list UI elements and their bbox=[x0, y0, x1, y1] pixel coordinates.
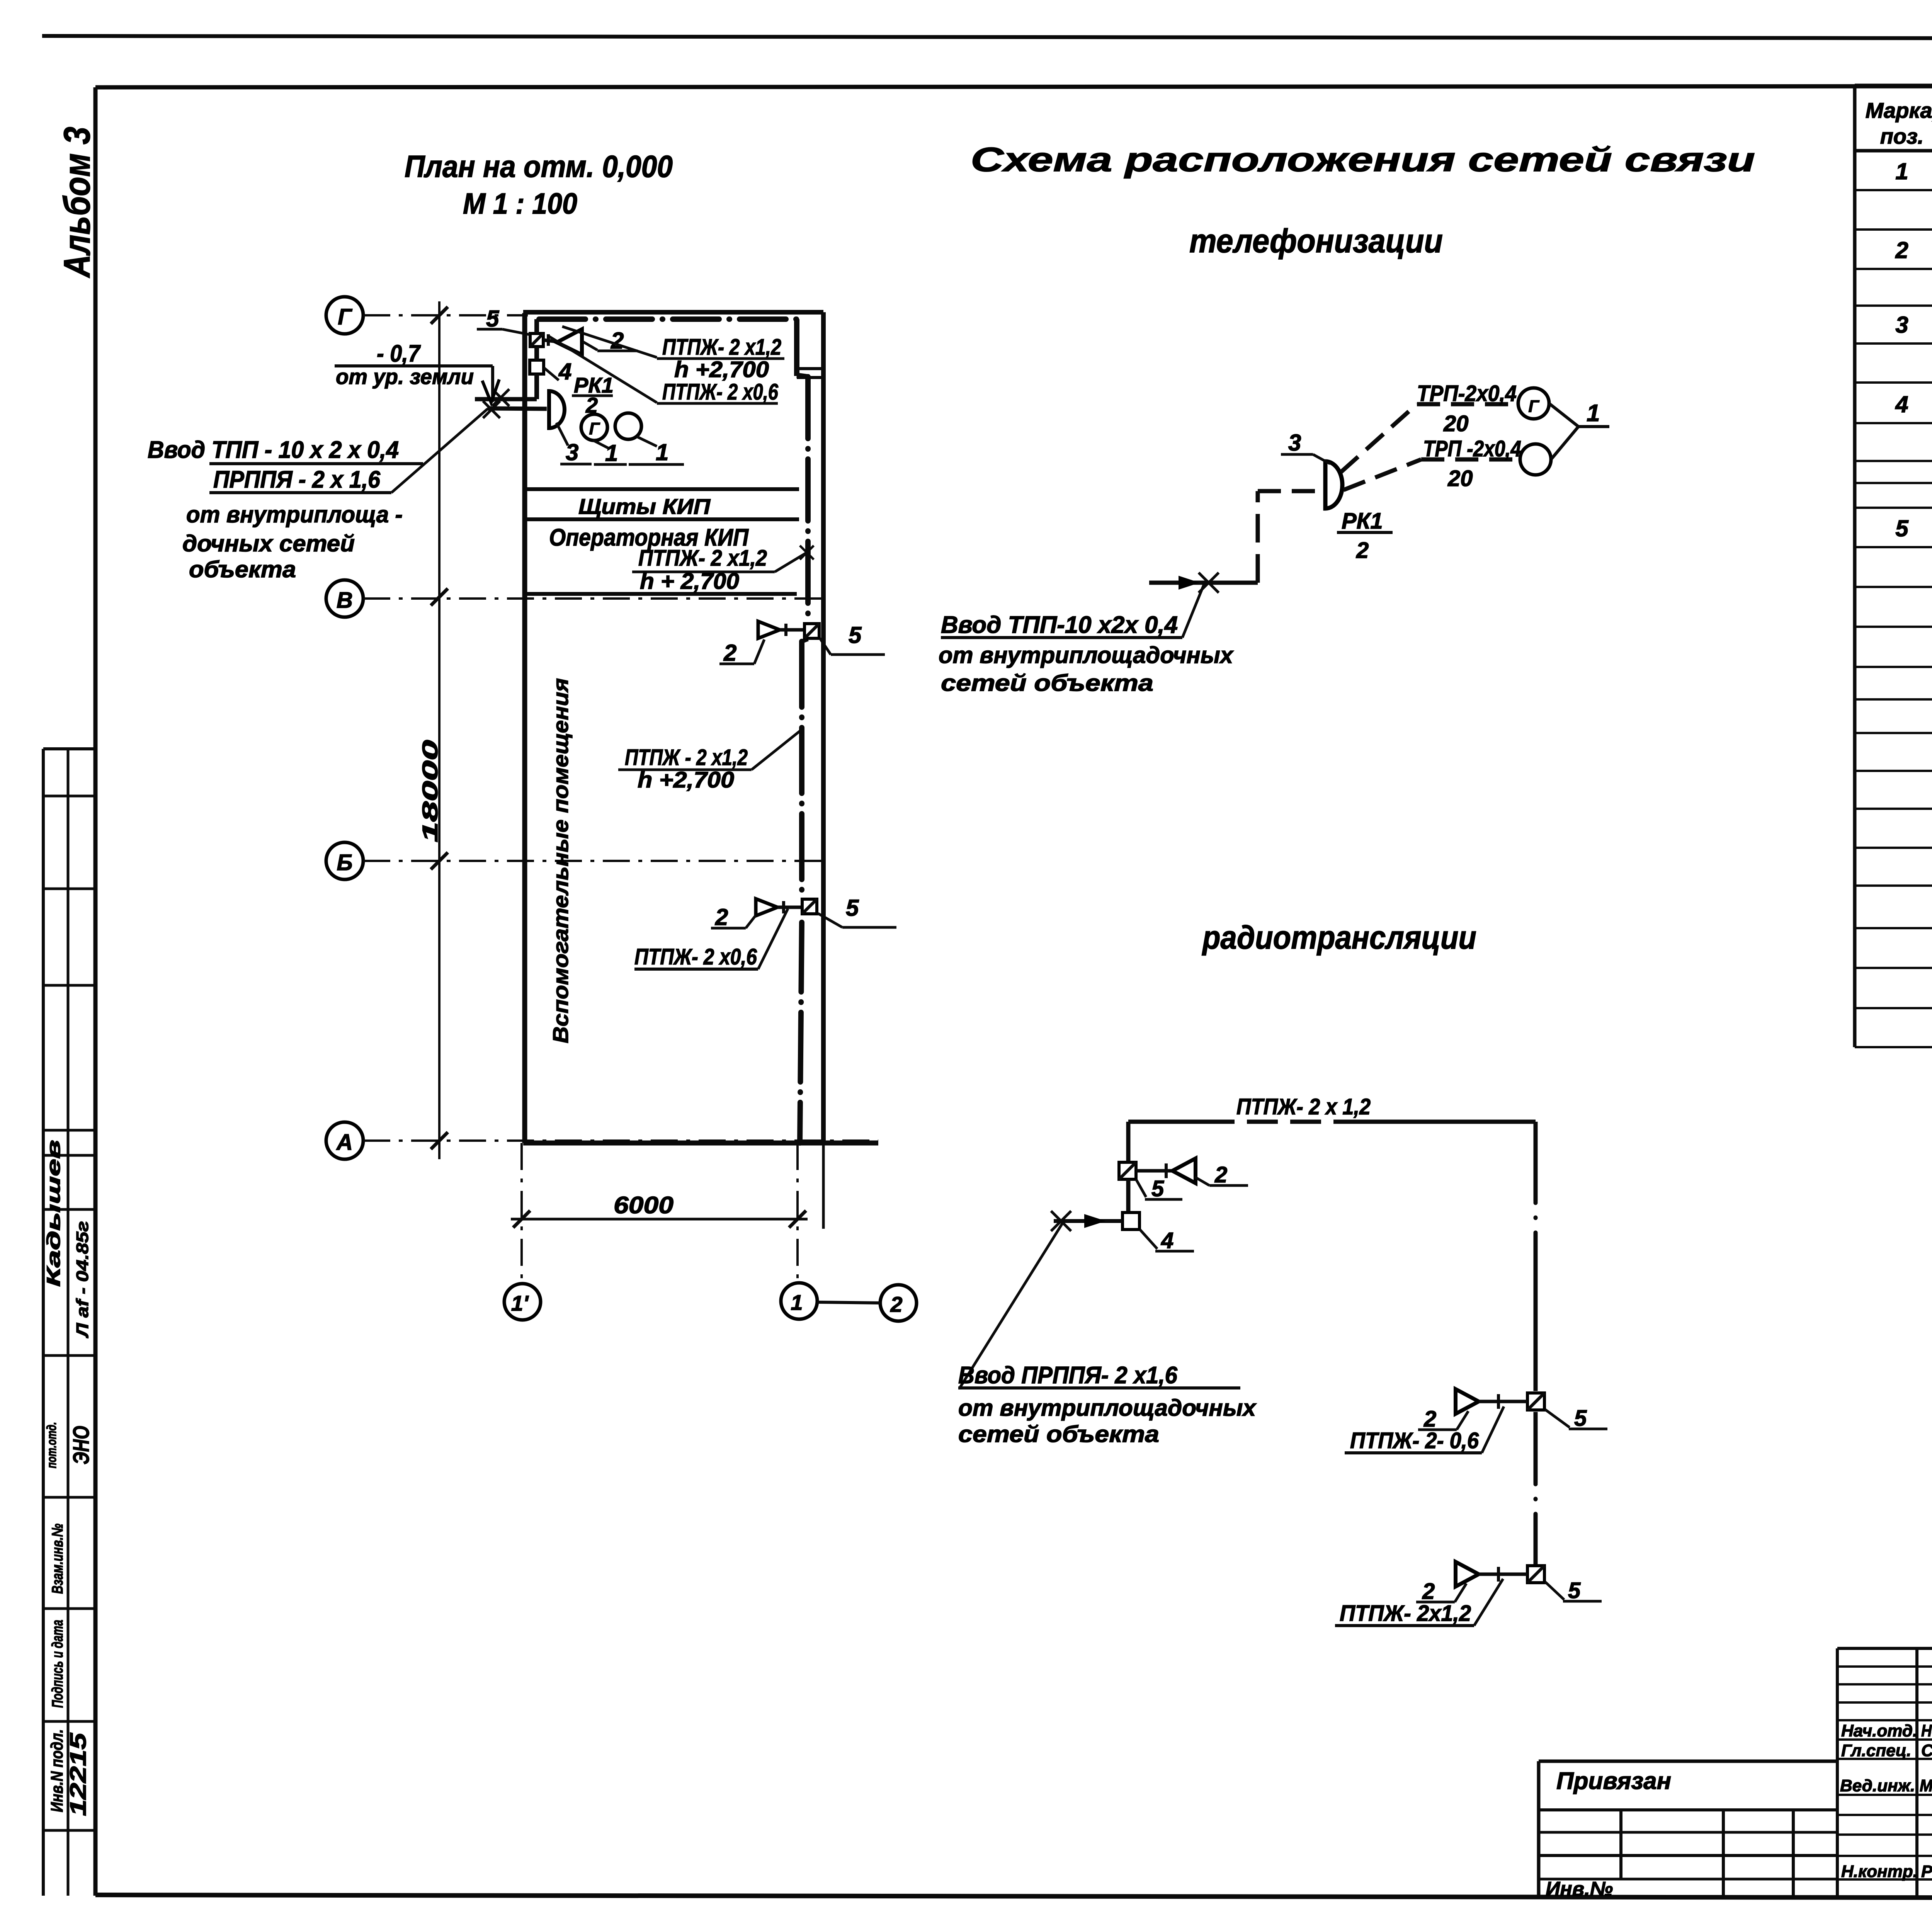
axis Б bbox=[326, 842, 823, 879]
left stamp strip grid bbox=[43, 749, 95, 1896]
entry stubs with crosses bbox=[475, 389, 547, 418]
radio entry arrow bbox=[1051, 1211, 1122, 1231]
svg-text:от внутриплощадочных: от внутриплощадочных bbox=[958, 1395, 1257, 1421]
axis Г bbox=[326, 297, 528, 334]
svg-text:сетей объекта: сетей объекта bbox=[958, 1421, 1159, 1447]
spec table rows text bbox=[1895, 158, 1932, 1041]
wire label mid operator room bbox=[632, 546, 814, 594]
svg-text:РК1: РК1 bbox=[1342, 509, 1383, 534]
svg-text:2: 2 bbox=[1214, 1162, 1227, 1187]
svg-text:Ввод ПРППЯ- 2 х1,6: Ввод ПРППЯ- 2 х1,6 bbox=[958, 1362, 1177, 1389]
svg-text:4: 4 bbox=[558, 359, 571, 384]
svg-text:4: 4 bbox=[1895, 391, 1908, 417]
loudspeaker item2 top-left bbox=[543, 329, 582, 355]
svg-text:18000: 18000 bbox=[418, 740, 442, 842]
svg-text:В: В bbox=[337, 588, 353, 613]
radio labels mid bbox=[1345, 1406, 1607, 1453]
vertical label Album 3 bbox=[56, 127, 98, 278]
bottom scan edge bbox=[37, 1899, 1932, 1932]
radio speaker bottom bbox=[1456, 1562, 1527, 1587]
svg-text:от внутриплощадочных: от внутриплощадочных bbox=[939, 642, 1234, 668]
svg-text:5: 5 bbox=[1574, 1406, 1587, 1431]
svg-text:ТРП-2х0,4: ТРП-2х0,4 bbox=[1417, 381, 1517, 406]
svg-text:Нач.отд.: Нач.отд. bbox=[1841, 1721, 1917, 1740]
svg-text:Инв.N подл.: Инв.N подл. bbox=[48, 1729, 66, 1812]
svg-text:20: 20 bbox=[1447, 466, 1473, 491]
svg-text:2: 2 bbox=[1356, 538, 1369, 563]
svg-text:2: 2 bbox=[1895, 237, 1908, 263]
tel lower branch TRP bbox=[1344, 436, 1551, 491]
radio right riser bbox=[1534, 1122, 1538, 1564]
telephone distribution box RK1 item3 bbox=[537, 374, 565, 428]
svg-text:1: 1 bbox=[1587, 400, 1600, 427]
wire label lower bbox=[618, 728, 804, 793]
svg-text:Щиты КИП: Щиты КИП bbox=[578, 494, 711, 519]
svg-text:ЭНО: ЭНО bbox=[69, 1426, 94, 1464]
radio box item5 left bbox=[1119, 1162, 1136, 1179]
radio labels bottom bbox=[1335, 1578, 1602, 1626]
svg-text:ПТПЖ- 2 х0,6: ПТПЖ- 2 х0,6 bbox=[662, 379, 779, 405]
radio box item4 bbox=[1122, 1213, 1139, 1230]
right wall group B speaker + box item5 bbox=[711, 895, 896, 930]
spec table grid bbox=[1855, 85, 1932, 1047]
svg-text:объекта: объекта bbox=[189, 556, 296, 582]
svg-text:Ввод ТПП-10 х2х 0,4: Ввод ТПП-10 х2х 0,4 bbox=[941, 612, 1178, 638]
svg-text:12215: 12215 bbox=[66, 1733, 91, 1816]
svg-text:h +2,700: h +2,700 bbox=[674, 357, 769, 382]
svg-text:ПТПЖ- 2х1,2: ПТПЖ- 2х1,2 bbox=[1340, 1601, 1471, 1626]
junction box item4 bbox=[530, 347, 544, 374]
label RK1/2 bbox=[572, 373, 614, 417]
tel label 1 fan bbox=[1549, 400, 1609, 459]
svg-text:h +2,700: h +2,700 bbox=[638, 767, 734, 793]
svg-text:М 1 : 100: М 1 : 100 bbox=[463, 187, 577, 220]
svg-text:h + 2,700: h + 2,700 bbox=[640, 569, 739, 594]
wire label PTPZh-2x0,6 lower bbox=[634, 909, 788, 969]
axis В bbox=[326, 580, 823, 617]
axis А bbox=[326, 1122, 878, 1159]
tel label 3 bbox=[1281, 430, 1330, 464]
svg-text:Привязан: Привязан bbox=[1556, 1768, 1671, 1794]
privyazan block bbox=[1539, 1761, 1837, 1900]
svg-text:сетей объекта: сетей объекта bbox=[941, 670, 1153, 696]
svg-text:Схема расположения сетей связи: Схема расположения сетей связи bbox=[971, 140, 1755, 179]
tel entry note bbox=[939, 584, 1234, 696]
svg-text:ПТПЖ- 2 х1,2: ПТПЖ- 2 х1,2 bbox=[662, 335, 781, 360]
radio entry note bbox=[958, 1222, 1257, 1447]
tel RK1/2 label bbox=[1337, 509, 1393, 563]
room labels bbox=[548, 494, 749, 1043]
svg-text:1: 1 bbox=[1895, 158, 1908, 184]
svg-text:2: 2 bbox=[890, 1292, 902, 1316]
svg-text:Инв.№: Инв.№ bbox=[1546, 1878, 1613, 1900]
svg-text:1: 1 bbox=[656, 439, 668, 465]
svg-text:Г: Г bbox=[338, 304, 352, 330]
svg-text:2: 2 bbox=[723, 640, 736, 666]
tel upper branch TRP bbox=[1341, 381, 1549, 472]
svg-text:5: 5 bbox=[846, 895, 859, 921]
svg-text:Г: Г bbox=[1528, 397, 1539, 416]
svg-text:ПТПЖ - 2 х1,2: ПТПЖ - 2 х1,2 bbox=[625, 745, 748, 770]
room divider lines bbox=[527, 489, 799, 594]
label 2 top-left bbox=[583, 328, 638, 354]
svg-text:2: 2 bbox=[1422, 1579, 1435, 1604]
svg-text:Взам.инв.№: Взам.инв.№ bbox=[49, 1524, 66, 1594]
radio top wire bbox=[1128, 1094, 1536, 1122]
radio speaker mid bbox=[1456, 1389, 1527, 1414]
svg-text:Вспомогательные помещения: Вспомогательные помещения bbox=[548, 678, 573, 1043]
radio wire to box4 bbox=[1126, 1179, 1131, 1213]
wall notch top right bbox=[797, 369, 822, 378]
svg-text:5: 5 bbox=[486, 306, 500, 332]
svg-text:План на отм. 0,000: План на отм. 0,000 bbox=[405, 149, 673, 184]
entry cable note left bbox=[148, 409, 488, 582]
svg-text:Рыков: Рыков bbox=[1921, 1862, 1932, 1881]
right wall group V-B speaker + box item5 bbox=[719, 621, 885, 666]
radio labels 5 2 left bbox=[1136, 1162, 1248, 1201]
callout labels 5 4 top-left bbox=[477, 306, 571, 384]
radio left riser bbox=[1126, 1122, 1131, 1163]
building outline bbox=[523, 312, 878, 1143]
elevation mark -0,7 bbox=[335, 340, 499, 403]
svg-text:поз.: поз. bbox=[1880, 124, 1924, 148]
svg-text:Вед.инж.: Вед.инж. bbox=[1840, 1776, 1915, 1795]
svg-text:1': 1' bbox=[511, 1291, 529, 1315]
tel riser wire bbox=[1258, 491, 1323, 583]
top border line bbox=[42, 36, 1932, 39]
svg-text:Б: Б bbox=[337, 850, 352, 875]
svg-text:Г: Г bbox=[589, 419, 600, 438]
svg-text:ПТПЖ- 2 х 1,2: ПТПЖ- 2 х 1,2 bbox=[1236, 1094, 1371, 1119]
callouts 3 1 1 bbox=[556, 423, 684, 466]
svg-text:радиотрансляции: радиотрансляции bbox=[1202, 919, 1476, 956]
telephone circle G bbox=[581, 414, 607, 440]
svg-text:1: 1 bbox=[791, 1290, 803, 1315]
svg-text:3: 3 bbox=[1895, 312, 1908, 338]
svg-text:3: 3 bbox=[1288, 430, 1301, 456]
svg-text:Непомнящий: Непомнящий bbox=[1921, 1721, 1932, 1740]
dimension 6000 bbox=[511, 1192, 808, 1228]
wire labels top right bbox=[549, 327, 784, 405]
svg-text:- 0,7: - 0,7 bbox=[377, 340, 421, 367]
svg-text:2: 2 bbox=[715, 904, 728, 930]
svg-text:5: 5 bbox=[1151, 1176, 1164, 1201]
stamp strip rotated labels bbox=[44, 1140, 94, 1816]
wire along walls bbox=[539, 319, 808, 1143]
svg-text:5: 5 bbox=[1568, 1578, 1581, 1603]
svg-text:20: 20 bbox=[1443, 411, 1469, 436]
svg-text:5: 5 bbox=[1895, 515, 1909, 541]
tel RK1 semicircle item3 bbox=[1325, 461, 1342, 509]
svg-text:Кадышев: Кадышев bbox=[44, 1140, 64, 1287]
svg-text:Ввод ТПП - 10 х 2 х 0,4: Ввод ТПП - 10 х 2 х 0,4 bbox=[148, 437, 399, 463]
svg-text:телефонизации: телефонизации bbox=[1189, 223, 1443, 260]
svg-text:пот.отд.: пот.отд. bbox=[44, 1422, 59, 1468]
svg-text:5: 5 bbox=[849, 622, 862, 648]
tel entry wire bbox=[1149, 573, 1258, 593]
radio section title bbox=[1202, 919, 1476, 956]
svg-text:6000: 6000 bbox=[614, 1192, 673, 1219]
svg-text:Л аf - 04.85г: Л аf - 04.85г bbox=[73, 1221, 92, 1338]
communication scheme title bbox=[971, 140, 1755, 260]
radio speaker left bbox=[1136, 1158, 1196, 1183]
svg-text:4: 4 bbox=[1161, 1228, 1173, 1253]
svg-text:Марка,: Марка, bbox=[1866, 98, 1932, 122]
svg-text:1: 1 bbox=[605, 440, 618, 466]
svg-text:Гл.спец.: Гл.спец. bbox=[1841, 1741, 1911, 1760]
svg-text:ПТПЖ- 2 х1,2: ПТПЖ- 2 х1,2 bbox=[638, 546, 767, 571]
svg-text:ПТПЖ- 2- 0,6: ПТПЖ- 2- 0,6 bbox=[1350, 1428, 1479, 1453]
distribution box item5 top-left bbox=[530, 319, 543, 347]
svg-text:дочных сетей: дочных сетей bbox=[182, 531, 355, 556]
svg-text:от ур. земли: от ур. земли bbox=[336, 364, 474, 389]
svg-text:Н.контр.: Н.контр. bbox=[1841, 1862, 1918, 1881]
svg-text:Мельникова: Мельникова bbox=[1920, 1776, 1932, 1795]
svg-text:ПТПЖ- 2 х0,6: ПТПЖ- 2 х0,6 bbox=[634, 944, 757, 969]
svg-text:ТРП -2х0,4: ТРП -2х0,4 bbox=[1423, 436, 1521, 461]
plan title bbox=[405, 149, 673, 220]
radio label 4 bbox=[1140, 1228, 1194, 1253]
bottom axes 1prime 1 2 bbox=[504, 1143, 917, 1321]
svg-text:ПРППЯ - 2 х 1,6: ПРППЯ - 2 х 1,6 bbox=[213, 466, 380, 493]
radio box item5 mid bbox=[1527, 1393, 1544, 1410]
spec table header bbox=[1866, 98, 1932, 148]
telephone circle plain bbox=[615, 413, 641, 439]
svg-text:Альбом 3: Альбом 3 bbox=[56, 127, 98, 278]
svg-text:Соколин: Соколин bbox=[1921, 1741, 1932, 1760]
svg-text:Подпись и дата: Подпись и дата bbox=[49, 1620, 66, 1708]
signature table bbox=[1837, 1648, 1932, 1896]
radio box item5 bottom bbox=[1527, 1566, 1544, 1583]
svg-text:А: А bbox=[336, 1130, 353, 1155]
vertical dimension line 18000 bbox=[418, 301, 448, 1159]
svg-text:от внутриплоща -: от внутриплоща - bbox=[186, 502, 403, 527]
